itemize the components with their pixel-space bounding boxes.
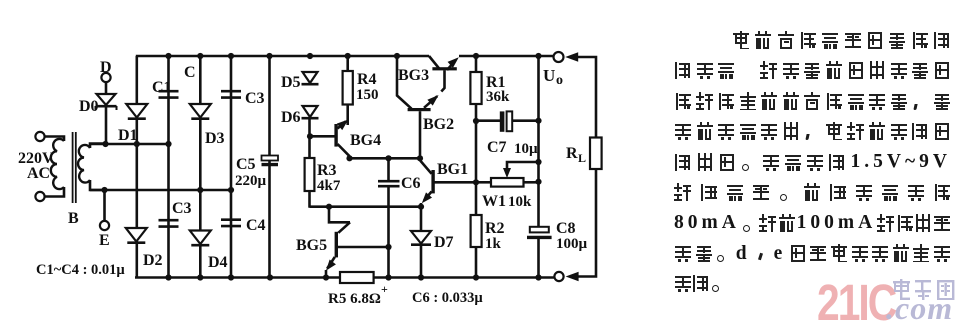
label D5: [281, 74, 301, 91]
transformer secondary winding: [78, 144, 106, 191]
svg-text:C7: C7: [487, 139, 507, 156]
svg-text:C6: C6: [401, 175, 421, 192]
label C3 top: [245, 90, 265, 107]
transistor BG1: [419, 158, 476, 206]
svg-text:C4: C4: [246, 217, 266, 234]
label C1-C4 value: [36, 262, 125, 278]
wire D1-D2 column: [136, 56, 139, 278]
label BG3: [398, 67, 429, 84]
label 220u: [235, 173, 267, 189]
wire RL top: [578, 57, 596, 138]
label C7 10u: [487, 139, 538, 157]
capacitor C2 lower-left: [159, 220, 179, 226]
label D7: [434, 234, 454, 251]
svg-text:BG4: BG4: [350, 132, 381, 149]
diode D3: [190, 104, 211, 119]
resistor R2: [471, 215, 482, 278]
svg-text:220µ: 220µ: [235, 173, 267, 189]
arrow into Uo+: [565, 52, 578, 62]
wire secondary bottom row: [90, 189, 231, 192]
resistor R5 inline: [340, 272, 374, 283]
svg-text:D7: D7: [434, 234, 454, 251]
svg-text:D: D: [100, 59, 112, 76]
label C4: [246, 217, 266, 234]
label D0: [79, 98, 99, 115]
diode D4: [190, 231, 211, 246]
svg-text:10k: 10k: [508, 194, 532, 210]
node dots wire C row: [102, 141, 171, 147]
resistor R4: [343, 56, 353, 125]
load resistor RL: [590, 138, 602, 170]
transformer primary terminal bottom: [35, 192, 44, 201]
svg-text:BG3: BG3: [398, 67, 429, 84]
transistor BG3: [429, 54, 461, 91]
node dot BG1 base: [473, 179, 479, 185]
label C6 value: [412, 290, 483, 306]
label R3 4k7: [317, 162, 341, 194]
label R5 6.8: [328, 282, 388, 307]
svg-text:BG2: BG2: [423, 116, 454, 133]
label B: [68, 210, 79, 227]
svg-text:C: C: [184, 64, 196, 81]
label 220V AC: [18, 150, 54, 182]
svg-text:o: o: [556, 73, 563, 88]
label C3 lower (C2): [172, 200, 192, 217]
svg-text:D1: D1: [118, 127, 138, 144]
transformer core: [73, 132, 76, 203]
svg-text:1k: 1k: [485, 236, 502, 252]
svg-text:E: E: [99, 232, 110, 249]
terminal Uo- circle: [554, 272, 563, 281]
svg-text:D2: D2: [143, 252, 163, 269]
label D6: [281, 109, 301, 126]
logo 21IC: [817, 273, 895, 328]
svg-text:R2: R2: [485, 220, 505, 237]
label W1 10k: [482, 193, 532, 210]
capacitor C7 electrolytic: [476, 111, 539, 131]
svg-text:L: L: [578, 151, 586, 165]
svg-text:D0: D0: [79, 98, 99, 115]
svg-text:W1: W1: [482, 193, 506, 210]
label BG2: [423, 116, 454, 133]
svg-text:BG5: BG5: [296, 237, 327, 254]
svg-text:100µ: 100µ: [556, 236, 588, 252]
diode D1: [126, 104, 147, 119]
terminal D circle: [101, 73, 110, 94]
node dots secondary bottom row: [101, 187, 234, 193]
diode D2: [126, 228, 147, 243]
wire C5 column: [268, 56, 271, 278]
resistor R1: [470, 56, 481, 121]
node dots top rail: [165, 53, 541, 59]
diode D0: [96, 94, 117, 110]
wire bottom ground rail: [135, 276, 555, 279]
wire D3-D4 column: [199, 56, 202, 278]
terminal Uo+ circle: [554, 52, 564, 62]
transistor BG5: [323, 207, 392, 278]
label D: [100, 59, 112, 76]
label R4 150: [356, 71, 379, 103]
wire R1 to R2: [475, 121, 478, 215]
svg-text:C5: C5: [236, 156, 256, 173]
label BG4: [350, 132, 381, 149]
node dots ground rail: [165, 274, 541, 280]
capacitor C3 top: [221, 91, 241, 97]
label C8 100u: [556, 220, 588, 252]
svg-text:D5: D5: [281, 74, 301, 91]
svg-text:R5 6.8Ω: R5 6.8Ω: [328, 291, 381, 307]
capacitor C1: [159, 91, 179, 97]
label D2: [143, 252, 163, 269]
svg-text:AC: AC: [27, 165, 50, 182]
svg-text:D3: D3: [205, 130, 225, 147]
label C1: [152, 79, 172, 96]
svg-text:R: R: [566, 145, 578, 162]
label C (node): [184, 64, 196, 81]
svg-text:C8: C8: [556, 220, 576, 237]
node dot R1-C7: [473, 118, 479, 124]
node dot D6-R3-BG4: [307, 133, 313, 139]
label D3: [205, 130, 225, 147]
wire top rail right segment: [459, 55, 554, 58]
svg-text:BG1: BG1: [437, 161, 468, 178]
arrow into Uo-: [566, 272, 579, 282]
svg-text:C3: C3: [172, 200, 192, 217]
label R1 36k: [486, 74, 510, 105]
wire C3-C4 column: [230, 56, 233, 278]
diode D7: [411, 207, 431, 278]
label Uo: [543, 66, 563, 88]
wire RL bottom: [579, 169, 597, 277]
diode D6: [302, 106, 319, 118]
label D1: [118, 127, 138, 144]
capacitor C4: [221, 220, 241, 226]
svg-text:R4: R4: [357, 71, 377, 88]
terminal E circle: [100, 190, 109, 230]
transformer primary terminal top: [35, 132, 44, 141]
logo dian zi wang glyphs: [892, 279, 956, 303]
wire BG4-BG2 row: [346, 155, 423, 161]
svg-text:C6 : 0.033µ: C6 : 0.033µ: [412, 290, 483, 306]
svg-text:+: +: [381, 282, 388, 296]
description paragraph: [732, 30, 951, 50]
svg-text:C3: C3: [245, 90, 265, 107]
svg-text:150: 150: [356, 87, 379, 103]
label C6: [401, 175, 421, 192]
label C5: [236, 156, 256, 173]
wire C7 right column: [535, 56, 541, 185]
wire BG4 base: [310, 135, 335, 138]
wire R3 bottom row: [310, 204, 425, 210]
wire C1-C2 column: [167, 56, 170, 278]
label D4: [208, 254, 228, 271]
svg-text:D4: D4: [208, 254, 228, 271]
capacitor C5 electrolytic: [262, 156, 279, 165]
diode D5: [302, 72, 319, 84]
label E: [99, 232, 110, 249]
svg-text:B: B: [68, 210, 79, 227]
svg-text:4k7: 4k7: [317, 178, 341, 194]
wire D0 to node: [105, 107, 108, 144]
svg-text:10µ: 10µ: [514, 141, 538, 157]
svg-text:C1~C4 : 0.01µ: C1~C4 : 0.01µ: [36, 262, 125, 278]
transistor BG2: [397, 56, 441, 158]
svg-text:R3: R3: [317, 162, 337, 179]
potentiometer W1: [476, 162, 539, 187]
svg-text:D6: D6: [281, 109, 301, 126]
svg-text:U: U: [543, 66, 555, 85]
svg-text:C1: C1: [152, 79, 172, 96]
resistor R3: [305, 118, 315, 208]
logo .com script: [886, 290, 953, 327]
wire secondary top (node C row): [90, 143, 170, 146]
capacitor C8 electrolytic: [527, 182, 552, 278]
label R2 1k: [485, 220, 505, 252]
label BG5: [296, 237, 327, 254]
label BG1: [437, 161, 468, 178]
wire top rail left segment: [136, 55, 429, 58]
transformer primary winding: [45, 137, 64, 197]
transistor BG4: [334, 116, 351, 156]
label RL: [566, 145, 586, 165]
capacitor C6: [378, 158, 400, 277]
svg-text:36k: 36k: [486, 89, 510, 105]
